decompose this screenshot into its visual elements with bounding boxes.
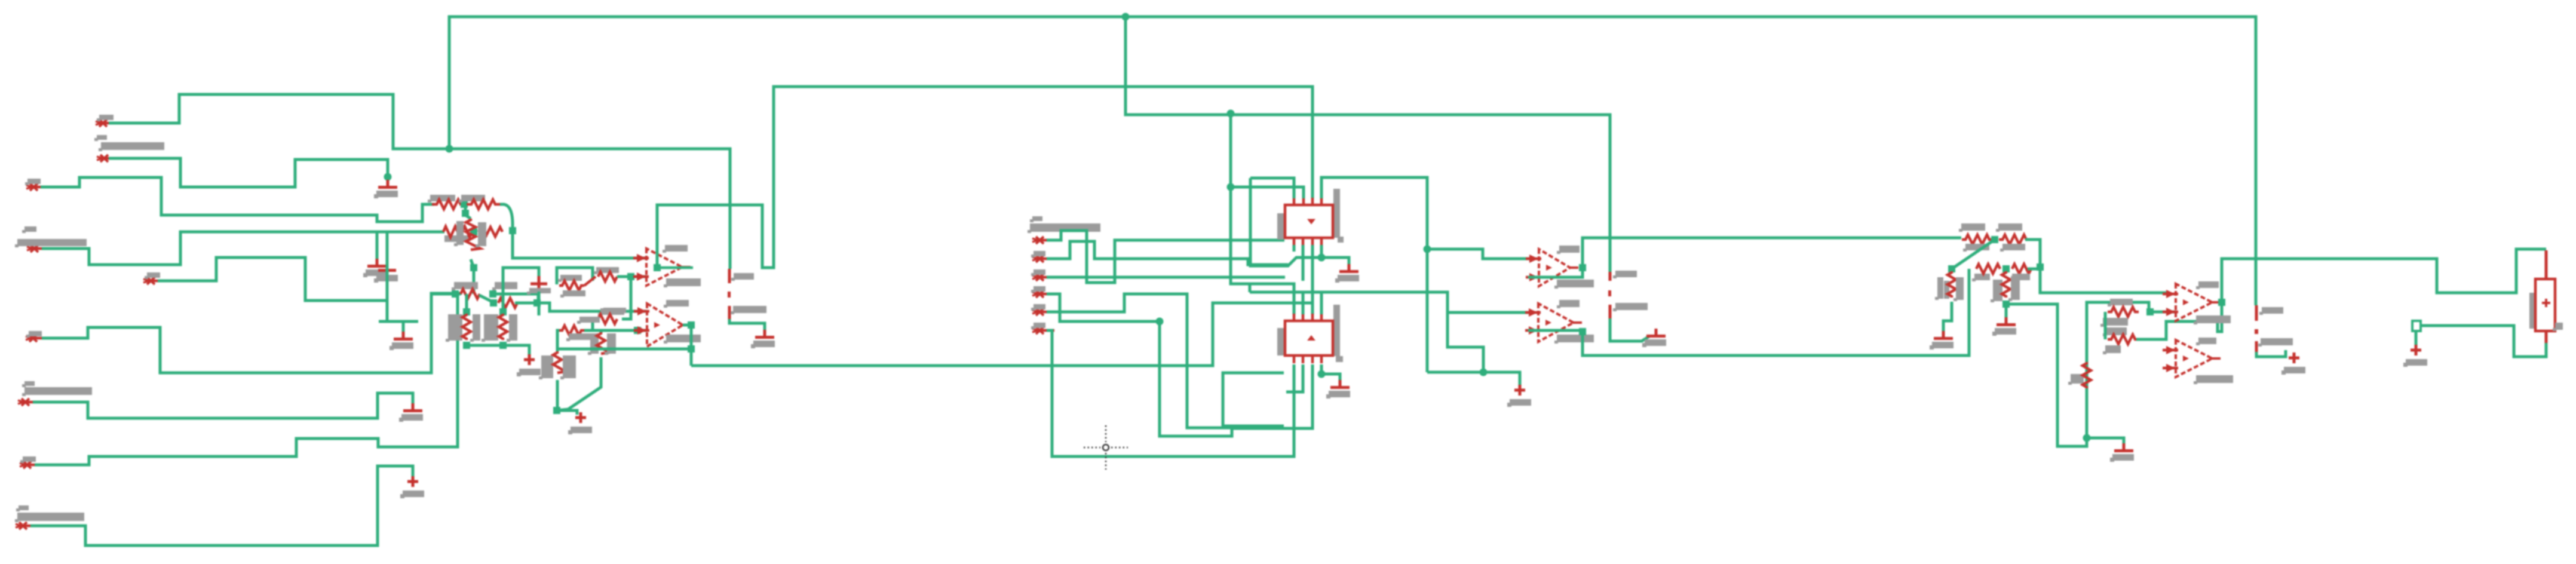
input port MID_5: [1032, 308, 1054, 315]
input port MID_4: [1032, 290, 1054, 298]
wire tie to GND14: [2415, 331, 2418, 345]
wire K1 pin2 to GND6: [729, 319, 765, 335]
junction net42 b: [1480, 369, 1488, 376]
label R16: [1959, 223, 1985, 232]
wire IN_B run: [109, 158, 388, 187]
label R15 right: [560, 355, 576, 379]
label IN_I value: [15, 513, 84, 522]
wire R14 stem: [600, 330, 603, 333]
junction top bus to mid rail: [446, 145, 453, 153]
label R16 value: [1963, 244, 1989, 252]
junction rail y190: [1227, 110, 1235, 118]
wire rowX: [431, 293, 461, 296]
label R20 right: [1954, 277, 1964, 301]
label R24 value: [2103, 345, 2121, 354]
resistor R14: [597, 332, 609, 354]
connector K3 pin 1: [2255, 305, 2258, 321]
label U2 value: [664, 335, 701, 344]
wire K2 pin2 to GND10: [1610, 318, 1650, 341]
label IN_B value: [99, 142, 164, 151]
label R23 value b: [2103, 327, 2127, 336]
label R8 value: [560, 290, 585, 298]
wire R20 to GND11: [1943, 302, 1952, 336]
connector J1 bottom lead: [2545, 331, 2548, 344]
label R21 right: [2008, 276, 2020, 301]
label K3 pin1: [2259, 307, 2283, 315]
ground GND12: [1992, 317, 2016, 336]
wire net42 to U4 +in: [1427, 249, 1532, 259]
op-amp U6: [1525, 304, 1582, 342]
resistor R17: [1999, 235, 2030, 244]
resistor R13: [559, 326, 584, 335]
ground GND9: [1326, 380, 1350, 399]
label IN_B name: [94, 135, 107, 141]
wire U3 pin4 top: [1321, 177, 1427, 372]
wire arc row1 to row2 square: [500, 204, 513, 227]
input port IN_I: [16, 522, 38, 529]
junction R10 bottom: [463, 342, 470, 349]
input port MID_6: [1032, 327, 1054, 334]
junction rowY node: [533, 299, 541, 306]
junction R11 bottom: [499, 342, 507, 349]
resistor R9: [598, 272, 617, 281]
wire x2092 stub: [1249, 284, 1252, 292]
wire mid long rail: [691, 303, 1312, 366]
wire GND5 stem: [387, 321, 418, 336]
label R14 left: [588, 333, 599, 355]
resistor R23: [2108, 307, 2139, 317]
wire U3 bottom pin1 stub: [1293, 245, 1296, 252]
label R20 left a: [1935, 277, 1943, 300]
label R22 left: [2068, 374, 2084, 385]
wire IN_G to GND4: [33, 393, 413, 418]
wire R23-R24 left link: [2104, 312, 2107, 339]
label U6 name: [1557, 300, 1580, 308]
ground GND1: [374, 180, 398, 198]
label U8 value: [2194, 375, 2233, 384]
resistor R16: [1962, 235, 1993, 244]
label IN_F: [26, 331, 42, 338]
wire U2 out down: [690, 325, 693, 366]
resistor R21: [2002, 271, 2010, 298]
label R11 right: [507, 314, 517, 342]
wire U3 bottom pin4: [1320, 245, 1323, 258]
label R23: [2108, 299, 2133, 306]
input port IN_H: [20, 461, 42, 468]
input port IN_A: [96, 119, 118, 127]
wire R11 up to cap rail: [503, 268, 539, 312]
label K3 pin2: [2258, 338, 2293, 347]
connector J1 top lead: [2545, 250, 2548, 279]
junction rowX left: [452, 290, 459, 298]
wire U5 pin2 top stub: [1302, 292, 1305, 314]
junction U4 out: [1579, 264, 1586, 271]
wire R8 bridge: [557, 268, 593, 284]
wire R9 to U1 -in: [617, 275, 647, 278]
wire IN_A to mid rail: [109, 94, 730, 269]
wire c2 row1 right: [2025, 240, 2040, 263]
supply marker P4: [2281, 352, 2305, 375]
wire IN_F long run: [42, 293, 462, 373]
red link R8-R9: [584, 277, 596, 286]
label R3: [444, 235, 468, 242]
net tie symbol: [2412, 321, 2421, 331]
label U8 name: [2196, 338, 2216, 345]
wire stub x648: [379, 232, 387, 321]
wire branch to junction b: [1448, 312, 1483, 372]
label R21 left: [1991, 280, 2002, 302]
input port MID_3: [1032, 274, 1054, 281]
cursor crosshair: [1084, 425, 1128, 470]
wire node to P3: [557, 410, 577, 415]
label MID_4: [1031, 286, 1045, 293]
junction MID_4: [1156, 318, 1164, 326]
junction row1 lower: [462, 210, 469, 217]
wire R13 to U2 -in: [584, 329, 647, 332]
junction rowY left: [490, 299, 497, 306]
ground GND4: [399, 403, 423, 422]
label U1 value: [664, 278, 701, 287]
IC U3: [1285, 198, 1333, 246]
wire to GND13: [2087, 438, 2124, 448]
label U7 name: [2196, 281, 2219, 289]
wire R14 diag to node: [557, 357, 601, 410]
wire MID_4 run: [1047, 294, 1160, 321]
wire U3 pin2 top: [1231, 187, 1304, 198]
IC U5: [1285, 314, 1333, 363]
wire row2 to op-amp U1 +in: [513, 231, 646, 258]
resistor R18: [1976, 264, 2000, 274]
ground GND5: [390, 332, 413, 350]
wire row1 sq to R5: [465, 204, 471, 219]
label IN_H: [20, 456, 36, 463]
junction U6 out: [1579, 328, 1586, 335]
wire C1 down: [538, 292, 541, 315]
ground GND10: [1642, 329, 1666, 347]
label R17 value: [2000, 244, 2025, 252]
wire stub to GND2: [376, 232, 379, 263]
junction rowX right: [489, 290, 496, 298]
junction U5 pin4: [1318, 370, 1326, 378]
wire left drop x2093: [1250, 178, 1349, 269]
resistor R3: [443, 226, 472, 237]
resistor R12: [598, 314, 617, 324]
junction under R5: [470, 264, 477, 271]
ground GND13: [2110, 443, 2134, 462]
ground GND7: [1335, 264, 1359, 283]
label U3 left: [1277, 213, 1284, 240]
wire U5 left C-shape: [1223, 373, 1284, 426]
wire U7 feedback: [2136, 302, 2222, 339]
input port IN_B: [97, 155, 119, 162]
wire R21 to GND12: [2005, 304, 2008, 321]
wire IN_D to R-block row2: [42, 232, 444, 265]
junction on top bus: [1122, 13, 1130, 21]
resistor R1: [432, 200, 465, 209]
connector K1 pin 2: [728, 306, 731, 319]
junction row2 mid: [470, 228, 477, 235]
label R15 left: [539, 355, 553, 379]
wire R13 left link: [557, 330, 559, 351]
junction R22 bottom: [2083, 434, 2091, 442]
label IN_D value: [15, 239, 87, 247]
junction U7 out: [2218, 299, 2225, 306]
label R8: [558, 275, 582, 282]
resistor R6: [461, 289, 480, 299]
label R19 value: [2010, 274, 2030, 281]
wire rail to U6 +in: [1250, 292, 1531, 312]
junction U2 feedback: [688, 345, 695, 352]
ground GND14: [2403, 345, 2427, 367]
wire net42 bottom: [1427, 372, 1520, 387]
label R11 left: [482, 314, 498, 342]
connector K2 mark: [1608, 290, 1611, 296]
connector K1 mark: [728, 292, 731, 298]
label U1 name: [663, 245, 688, 253]
label IN_E: [145, 272, 160, 279]
wire U1- down to R12: [622, 277, 631, 319]
junction under R21: [2002, 301, 2010, 308]
supply marker P2: [517, 354, 541, 376]
connector J1 body: [2535, 279, 2555, 331]
op-amp U2: [634, 304, 691, 347]
wire MID_2 staircase: [1047, 241, 1288, 265]
junction row1: [461, 201, 468, 208]
wire U3 bottom pin2 down: [1302, 245, 1305, 281]
junction above GND1: [384, 173, 392, 181]
op-amp U1: [633, 249, 691, 286]
junction node bottom: [553, 407, 560, 414]
resistor R8: [559, 281, 584, 290]
wire U2 feedback west: [557, 348, 691, 351]
junction U2 out: [688, 321, 695, 329]
label R10 right: [470, 314, 480, 342]
label U5 left: [1277, 328, 1284, 355]
op-amp U4: [1526, 249, 1578, 286]
label J1 left: [2529, 293, 2536, 329]
wire K3 pin2 run: [2256, 350, 2286, 357]
connector K1 pin 1: [728, 269, 731, 283]
label U4 name: [1557, 246, 1580, 254]
wire R12 left jog: [593, 319, 598, 330]
label K2 pin2: [1613, 303, 1648, 311]
ground GND3 (inverted): [374, 269, 398, 283]
wire U5 pin2 bottom: [1286, 364, 1303, 392]
label IN_G name: [22, 381, 35, 387]
wire MID_5 run: [1047, 294, 1232, 428]
junction on gnd rail: [1318, 254, 1326, 262]
wire IN_C to R-block row1: [41, 177, 434, 222]
resistor R5: [466, 219, 480, 250]
label R20 left b: [1944, 281, 1949, 299]
wire rowX east: [493, 294, 538, 303]
wire J1 bottom run: [2421, 326, 2546, 357]
wire IN_I bottom run: [30, 466, 413, 545]
label R14 right: [605, 333, 616, 355]
resistor R19: [2012, 264, 2031, 274]
op-amp U8: [2163, 340, 2221, 377]
label U5 hook: [1336, 356, 1343, 362]
ground GND2: [363, 259, 387, 277]
label R6: [452, 282, 478, 290]
label R17: [1996, 223, 2022, 232]
label U4 value: [1554, 280, 1594, 289]
resistor R15: [553, 351, 566, 373]
input port IN_E: [143, 277, 165, 284]
label U6 value: [1554, 335, 1594, 344]
wire diag R6-R7: [479, 295, 493, 302]
label MID_6: [1031, 323, 1045, 329]
wire rowY east: [515, 302, 537, 305]
label U7 value: [2194, 315, 2231, 324]
label R5 right: [476, 222, 486, 247]
wire U4 feedback: [1528, 270, 1583, 277]
wire R5 to row3: [471, 259, 474, 294]
junction c2 corner: [2037, 263, 2044, 271]
label U2 name: [664, 300, 689, 308]
junction c2 row2 left: [1948, 265, 1955, 272]
wire U3 bottom pin3 to U5 top: [1311, 245, 1314, 314]
label R10 left: [446, 314, 462, 342]
wire c2 to drop: [2006, 302, 2149, 446]
input port MID_1: [1032, 237, 1054, 244]
wire U6 feedback: [1528, 329, 1586, 332]
label R13: [577, 317, 600, 324]
label IN_D name: [22, 226, 36, 233]
wire rowY to U2 +in: [537, 303, 647, 311]
label MID_3: [1031, 269, 1045, 276]
label MID_2: [1031, 251, 1045, 258]
resistor R7: [498, 298, 517, 308]
wire main top bus: [449, 17, 2256, 305]
label IN_C: [25, 179, 41, 185]
label R12: [598, 308, 624, 316]
label R1: [428, 195, 455, 203]
wire MID_4 to U3 area: [1160, 321, 1312, 436]
label mid port value: [1028, 223, 1100, 233]
label R2: [459, 195, 485, 203]
op-amp U7: [2163, 284, 2221, 321]
connector K2 pin 2: [1609, 305, 1612, 318]
capacitor C1 plus: [530, 276, 547, 292]
wire top bus drop to rail: [1126, 17, 1610, 272]
label MID_5: [1031, 304, 1045, 311]
wire U2 out stub: [683, 324, 691, 327]
label U3 right: [1333, 189, 1340, 238]
resistor R2: [467, 200, 500, 209]
label R18: [1972, 274, 1990, 281]
label U5 right: [1333, 305, 1340, 356]
wire c2 corner to U7 +in: [2040, 267, 2169, 293]
wire U5 pin4 top stub: [1320, 292, 1323, 314]
wire R15 stem down: [556, 380, 559, 410]
label J1 hook: [2553, 323, 2563, 331]
wire MID_6 run: [1047, 330, 1294, 456]
supply marker P3: [568, 412, 592, 434]
wire R10 up: [465, 294, 468, 312]
label U3 hook: [1338, 237, 1344, 243]
junction c2 row1: [1991, 236, 1998, 243]
ground GND6: [751, 330, 775, 348]
resistor R11: [499, 314, 507, 340]
resistor R24: [2108, 335, 2139, 344]
input port IN_D: [27, 245, 49, 252]
resistor R22: [2083, 362, 2091, 388]
label R13 value: [566, 333, 591, 341]
wire U1 output stub: [657, 266, 693, 269]
label IN_A: [97, 115, 114, 121]
junction c2 row2 mid: [2002, 265, 2010, 272]
junction R10 top: [463, 308, 470, 315]
input port MID_2: [1032, 255, 1054, 262]
ground GND11: [1930, 331, 1954, 350]
label R9: [594, 267, 619, 274]
wire node to U7 -in: [2150, 311, 2176, 314]
label net name on U2+in: [603, 308, 626, 313]
junction U2 -in: [634, 327, 641, 334]
wire R10-R11 bottoms: [467, 345, 529, 356]
wire MID_3 long: [1047, 276, 1285, 279]
junction net42 a: [1424, 246, 1431, 253]
ground GND8: [1507, 385, 1531, 407]
label K1 pin1: [731, 273, 754, 281]
label C1: [527, 288, 551, 295]
label K1 pin2: [731, 306, 766, 314]
supply marker P1: [400, 476, 424, 498]
wire IN_H run: [35, 295, 458, 465]
junction U1 -in: [627, 273, 634, 280]
wire c2 diagonal: [1952, 240, 1995, 269]
wire U6 out east: [1583, 269, 1969, 355]
wire c2 row2 right: [2028, 268, 2040, 271]
input port IN_G: [18, 399, 40, 406]
connector K3 pin 2: [2255, 341, 2258, 352]
input port IN_C: [26, 183, 48, 191]
wire U5 pin4 bottom: [1321, 364, 1340, 385]
wire U3 pin1 top: [1250, 178, 1294, 198]
resistor R20: [1948, 271, 1956, 298]
label R5 left: [454, 221, 464, 246]
label mid port name: [1030, 216, 1042, 222]
junction U1 feedback: [654, 264, 661, 271]
connector K2 pin 1: [1609, 272, 1612, 281]
connector K3 mark: [2255, 329, 2258, 334]
resistor R10: [462, 314, 471, 340]
wire U1 feedback loop: [657, 87, 1312, 268]
junction R11 top: [499, 308, 507, 315]
junction y313: [1227, 183, 1235, 191]
wire net to U5 pin1: [1231, 114, 1294, 314]
label IN_G value: [22, 387, 92, 396]
wire U4 out north: [1583, 238, 1961, 268]
wire U7 out to J1: [2222, 249, 2546, 302]
label R7: [492, 282, 517, 290]
label IN_I name: [16, 505, 29, 511]
resistor R4: [479, 227, 502, 237]
input port IN_F: [26, 335, 48, 342]
label R23 value a: [2100, 318, 2128, 327]
wire IN_E run: [158, 258, 387, 301]
junction row2 right: [509, 227, 516, 234]
junction U7 -in node: [2146, 308, 2154, 315]
wire MID_1 staircase: [1047, 231, 1284, 283]
label K2 pin1: [1613, 271, 1637, 278]
